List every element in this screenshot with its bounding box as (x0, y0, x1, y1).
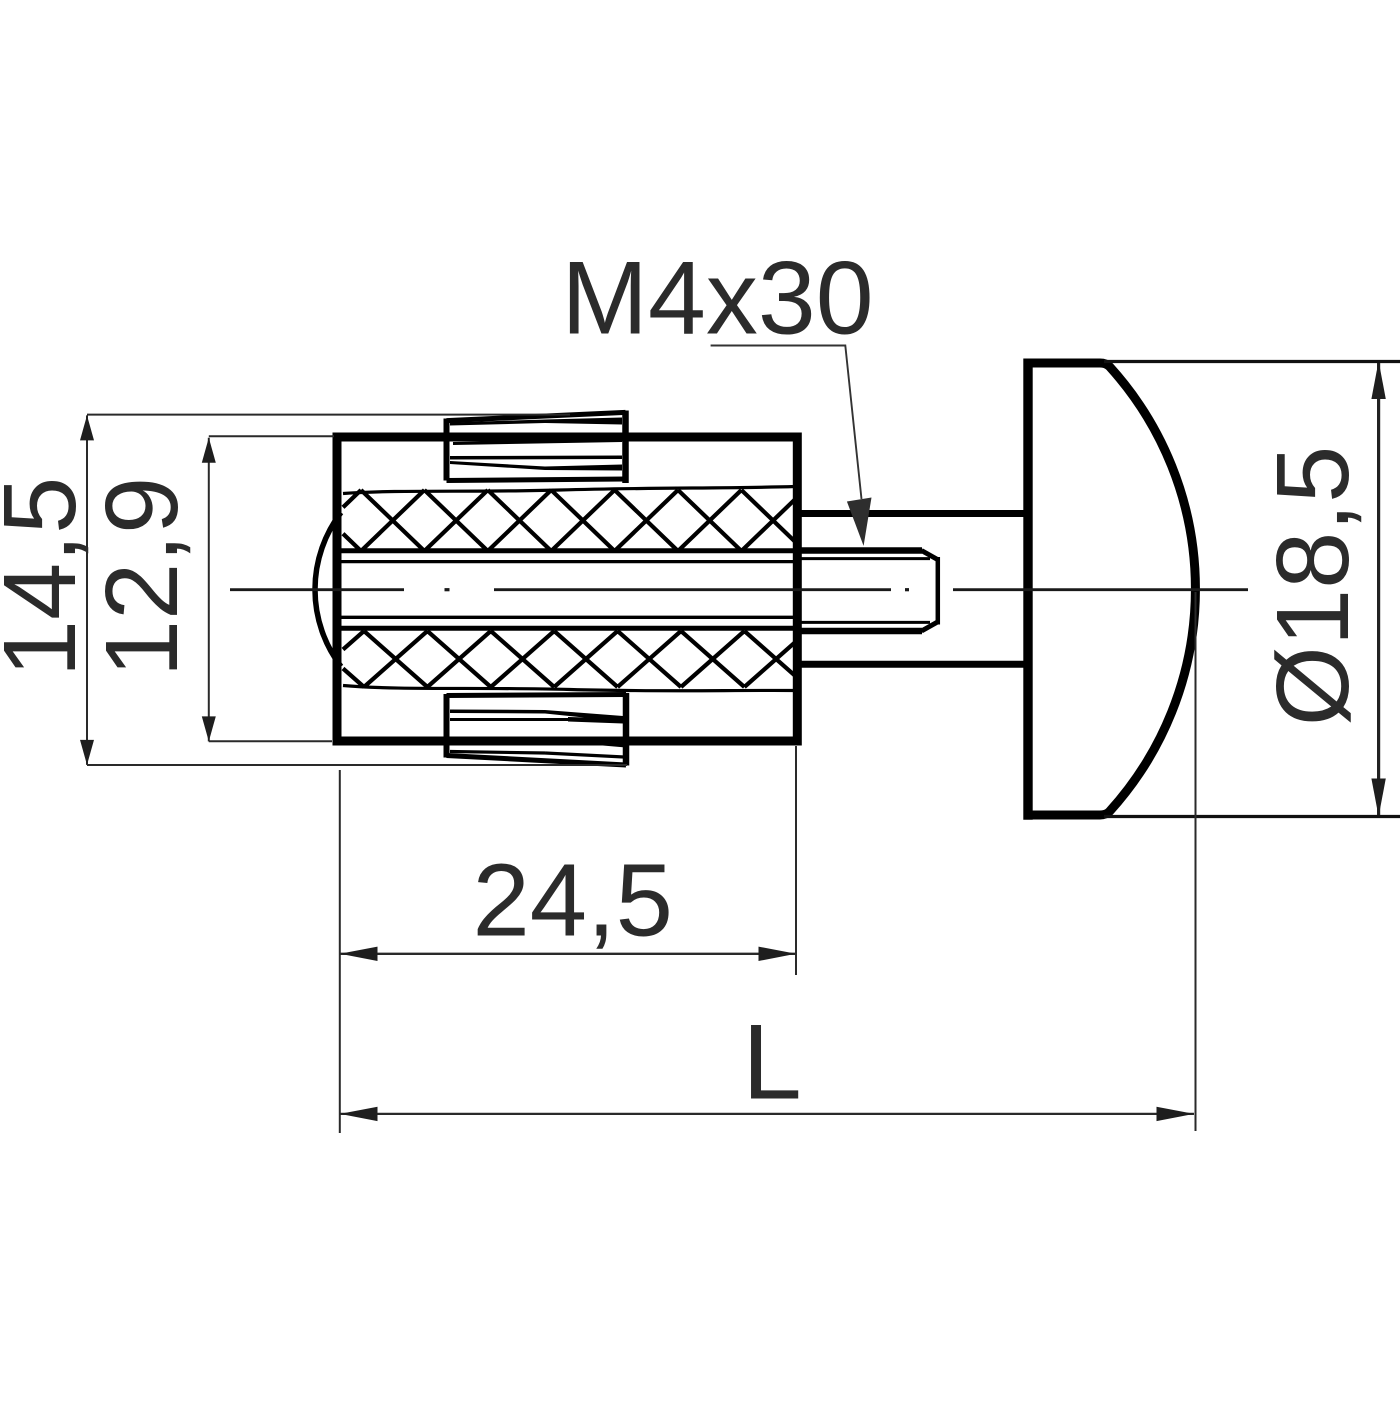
svg-text:12,9: 12,9 (84, 477, 199, 677)
svg-text:Ø18,5: Ø18,5 (1255, 446, 1370, 727)
svg-text:L: L (742, 1002, 802, 1122)
svg-text:14,5: 14,5 (0, 477, 97, 677)
svg-text:24,5: 24,5 (472, 843, 672, 958)
svg-text:M4x30: M4x30 (561, 241, 873, 357)
